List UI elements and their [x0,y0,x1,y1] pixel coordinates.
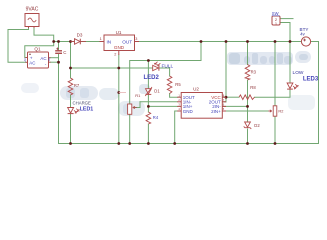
svg-text:D2: D2 [254,123,260,128]
watermark blobs (behind schematic) [227,52,293,65]
faint red stub at mid dot [119,92,126,94]
svg-text:GND: GND [114,45,125,50]
svg-text:R1: R1 [135,93,141,98]
junction at (148.4,60.5) [147,59,150,62]
bridge rectifier Q1 [23,46,51,68]
svg-text:IN: IN [107,39,112,44]
junction at (58.5,62.2) [57,61,60,64]
resistor R4 [146,112,159,124]
junction at (247.5,41.5) [246,40,249,43]
svg-text:2IN+: 2IN+ [211,109,221,114]
wire 9VAC left lead loop [8,27,29,63]
diode D3 [71,32,87,44]
junction at (148.4,106.4) [147,105,150,108]
wire SW pin1 to bus [280,23,290,42]
svg-text:U2: U2 [193,87,199,92]
junction at (201,41.5) [200,40,203,43]
svg-text:LOW: LOW [293,70,304,76]
wire R2 column upper [274,42,276,106]
svg-text:D1: D1 [154,88,160,93]
switch SW [272,11,280,26]
junction at (275,143.5) [274,142,277,145]
svg-text:U1: U1 [116,30,122,35]
wire D1 to dot [147,95,149,112]
wire R1 column lower [129,114,131,143]
wire 1IN- row with R1 wiper branch [140,101,177,103]
wire VCC stub [222,96,226,98]
junction at (226,41.5) [225,40,228,43]
svg-text:CHARGE: CHARGE [73,101,92,106]
svg-text:R4: R4 [153,115,159,120]
wire R4 bottom [147,124,149,144]
junction at (58.5,41.5) [57,40,60,43]
junction at (226,97.2) [225,96,228,99]
wire D2 bottom [247,129,249,144]
wire 2IN+ row to R2 wiper [222,110,268,112]
LED LED3 [287,70,319,89]
junction at (174.7,143.5) [173,142,176,145]
svg-text:4v: 4v [300,31,305,36]
resistor R8 horizontal [239,85,256,100]
wire U1 GND column [118,55,120,144]
wire R1 column upper [129,61,131,105]
wire capacitor column lower [58,54,60,62]
svg-text:R3: R3 [251,70,257,75]
junction at (70.5,143.5) [69,142,72,145]
capacitor C [55,48,66,55]
wire VCC column from bus [225,42,227,102]
wire D1 column upper [147,61,149,89]
AC source 9VAC [25,7,39,29]
svg-text:SW: SW [272,11,279,16]
wire capacitor column upper [58,42,60,51]
svg-text:Q1: Q1 [34,46,41,51]
junction at (118.8,92.5) [117,91,120,94]
svg-text:LED2: LED2 [144,75,160,81]
wire U2 GND down [175,111,178,144]
trimmer R1 [128,93,141,115]
wire left ground column [58,62,60,143]
svg-text:R8: R8 [250,85,256,90]
wire 9VAC right lead [25,27,54,58]
svg-text:AC: AC [23,58,27,62]
zener D2 [244,122,261,129]
wire SW pin2 stub [280,18,293,20]
LED LED2 [144,62,174,81]
svg-text:R2: R2 [278,109,283,114]
resistor R3 [245,65,256,81]
wire 2OUT jog [222,101,226,103]
wire 1IN+ row from D1/R4 dot [148,105,177,107]
junction at (118.8,68) [117,67,120,70]
svg-text:9VAC: 9VAC [26,7,39,13]
svg-text:FULL: FULL [162,63,174,69]
wire R2 column lower [274,116,276,143]
junction at (53.7,41.5) [52,40,55,43]
wire R8 left lead [226,96,239,98]
wire bottom bus [59,143,319,145]
svg-text:R5: R5 [175,82,181,87]
svg-text:OUT: OUT [122,39,132,44]
svg-text:LED1: LED1 [80,106,94,112]
junction at (118.8,143.5) [117,142,120,145]
wire Q1 right-bottom to ground node [51,61,59,63]
wire 2IN- row to D2 node [222,105,247,107]
svg-text:1: 1 [100,37,102,41]
svg-text:C: C [63,50,66,55]
svg-text:R7: R7 [74,83,80,88]
resistor R5 [167,76,181,94]
junction at (70.5,41.5) [69,40,72,43]
op-amp U2 [177,87,226,119]
wire W1 horizontal to bus tap [130,42,201,61]
wire LED3 column [289,42,291,84]
wire R8 right lead to LED3 column [255,89,291,97]
svg-text:LED3: LED3 [303,76,319,82]
svg-text:AC: AC [29,61,35,66]
svg-text:D3: D3 [77,32,83,37]
wire R3 column upper [247,42,249,65]
wire LED2 cathode to R5 [159,68,169,76]
junction at (247.5,106.4) [246,105,249,108]
junction at (129.7,143.5) [128,142,131,145]
battery terminal BTY [300,27,311,46]
svg-text:3: 3 [135,37,137,41]
trimmer R2 [268,106,283,116]
svg-text:2: 2 [114,52,116,56]
svg-text:AC: AC [47,57,51,61]
wire W2 horizontal to LED2 anode [71,67,153,69]
wire top bus right segment [135,41,302,43]
LED LED1 [68,101,94,114]
wire Q1 right-top to cap column [51,57,59,59]
wire top bus left segment [54,41,104,43]
svg-text:GND: GND [183,109,194,114]
junction at (290,41.5) [289,40,292,43]
junction at (148.4,143.5) [147,142,150,145]
wire R5 bottom to U2 1OUT [170,94,178,98]
svg-text:AC: AC [40,56,46,61]
wire battery to right edge drop [311,42,319,144]
diode D1 zener [145,87,160,96]
regulator U1 [100,30,140,56]
junction at (70.5,68) [69,67,72,70]
wire R3 to D2 [247,80,249,122]
junction at (247.5,143.5) [246,142,249,145]
resistor R7 [68,78,80,95]
wire R7/LED1 column [70,42,72,79]
junction at (275,41.5) [274,40,277,43]
